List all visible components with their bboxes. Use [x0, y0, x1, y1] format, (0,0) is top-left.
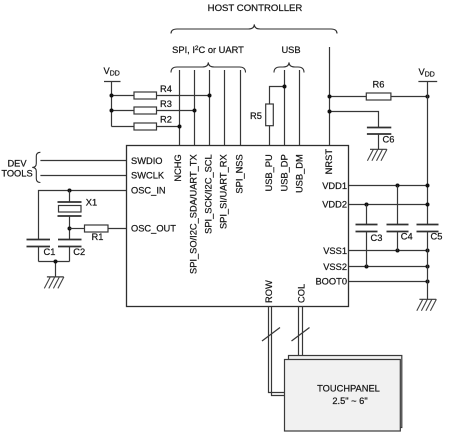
junction R4 / SCL	[208, 94, 212, 98]
wire OSC_IN to C1	[39, 191, 128, 240]
svg-text:TOUCHPANEL: TOUCHPANEL	[317, 383, 380, 393]
wire VDD stem to R2	[112, 126, 135, 128]
pin label USB_DM	[294, 154, 304, 193]
junction VSS2 / C3	[365, 265, 369, 269]
junction R6 / NRST	[328, 95, 332, 99]
svg-text:C1: C1	[44, 247, 56, 257]
brace dev tools	[32, 152, 40, 182]
label HOST CONTROLLER	[208, 3, 303, 14]
capacitor C3	[356, 205, 383, 267]
junction R3 / SDA	[193, 109, 197, 113]
pin label SWCLK	[131, 171, 165, 181]
wire USB_DP to host	[284, 70, 286, 146]
junction VDD1 / C4	[396, 184, 400, 188]
svg-text:NCHG: NCHG	[173, 154, 183, 181]
svg-text:R5: R5	[250, 111, 262, 121]
wire SWCLK	[40, 175, 127, 177]
svg-text:C4: C4	[401, 232, 413, 242]
wire C1 C2 ground bus	[39, 262, 70, 278]
capacitor C5	[417, 225, 443, 300]
wire SPI_SI/UART_RX to host	[224, 70, 226, 146]
wire NRST vertical	[329, 47, 331, 146]
pin label OSC_IN	[131, 185, 166, 195]
label touchpanel	[317, 383, 380, 406]
pin label OSC_OUT	[131, 223, 176, 233]
wire NCHG to host	[179, 70, 181, 146]
svg-text:DEV: DEV	[7, 159, 27, 169]
junction VDD stem R4	[110, 94, 114, 98]
svg-text:SPI_SCK/I2C_SCL: SPI_SCK/I2C_SCL	[203, 154, 213, 234]
svg-text:USB_DP: USB_DP	[279, 154, 289, 191]
supply VDD right	[418, 67, 437, 225]
crystal X1	[58, 191, 98, 240]
touchpanel front panel	[285, 360, 401, 432]
svg-text:ROW: ROW	[264, 280, 274, 303]
pin label VSS1	[323, 246, 347, 256]
bus ROW	[269, 307, 286, 396]
junction VDD2 / VDD rail	[426, 203, 430, 207]
svg-text:SWDIO: SWDIO	[131, 156, 163, 166]
wire BOOT0	[349, 281, 428, 283]
capacitor C1	[27, 240, 56, 262]
svg-text:VSS1: VSS1	[323, 246, 347, 256]
svg-text:R2: R2	[160, 115, 172, 125]
svg-text:USB_DM: USB_DM	[294, 154, 304, 193]
pin label NRST	[324, 149, 334, 175]
svg-text:R4: R4	[160, 84, 172, 94]
junction C6 / NRST	[328, 110, 332, 114]
pin label SPI_SCK/I2C_SCL	[203, 154, 213, 234]
wire SWDIO	[40, 160, 127, 162]
bus slash COL	[292, 328, 310, 342]
brace USB group	[274, 62, 304, 72]
svg-text:C3: C3	[371, 233, 383, 243]
label USB	[281, 45, 300, 55]
junction OSC_OUT / X1 / C2	[68, 227, 72, 231]
bus COL	[299, 307, 303, 361]
wire SPI_NSS to host	[240, 70, 242, 146]
junction VDD1 / VDD rail	[426, 184, 430, 188]
pin label USB_DP	[279, 154, 289, 191]
svg-text:SPI_SO/I2C_SDA/UART_TX: SPI_SO/I2C_SDA/UART_TX	[188, 154, 198, 274]
resistor R3	[112, 99, 195, 114]
junction R6 / VDD rail	[426, 95, 430, 99]
pin label SPI_NSS	[234, 154, 244, 193]
pin label NCHG	[173, 154, 183, 181]
pin label COL	[296, 284, 306, 303]
wire VDD2	[349, 204, 428, 206]
wire SPI_SO/I2C_SDA/UART_TX to host	[194, 70, 196, 146]
svg-text:SPI, I2C or UART: SPI, I2C or UART	[172, 45, 244, 55]
junction R2 / NCHG	[178, 125, 182, 129]
junction ground bus	[54, 260, 58, 264]
pin label VDD1	[322, 181, 347, 191]
wire VSS1	[349, 250, 428, 252]
wire USB_DM to host	[299, 70, 301, 146]
junction VDD stem R3	[110, 109, 114, 113]
svg-text:OSC_OUT: OSC_OUT	[131, 223, 176, 233]
svg-text:VDD1: VDD1	[322, 181, 347, 191]
pin label SPI_SO/I2C_SDA/UART_TX	[188, 154, 198, 274]
svg-text:SPI_SI/UART_RX: SPI_SI/UART_RX	[218, 154, 228, 229]
label SPI, I2C or UART	[172, 45, 244, 55]
touchpanel back panel	[289, 356, 402, 428]
ground C6	[367, 149, 387, 161]
svg-text:C5: C5	[431, 232, 443, 242]
resistor R1	[70, 225, 128, 242]
resistor R5	[250, 87, 285, 147]
pin label SPI_SI/UART_RX	[218, 154, 228, 229]
pin label USB_PU	[264, 154, 274, 191]
svg-text:TOOLS: TOOLS	[1, 169, 32, 179]
svg-text:C6: C6	[383, 135, 395, 145]
wire VDD1	[349, 185, 428, 187]
svg-text:R1: R1	[92, 232, 104, 242]
wire SPI_SCK/I2C_SCL to host	[209, 70, 211, 146]
junction OSC_IN / X1	[68, 189, 72, 193]
svg-text:VSS2: VSS2	[323, 262, 347, 272]
brace host controller	[171, 24, 337, 33]
ground left	[44, 277, 64, 289]
svg-text:BOOT0: BOOT0	[315, 277, 347, 287]
pin label BOOT0	[315, 277, 347, 287]
junction VDD2 / C3	[365, 203, 369, 207]
svg-text:USB_PU: USB_PU	[264, 154, 274, 191]
junction BOOT0 / ground rail	[426, 280, 430, 284]
label DEV TOOLS	[1, 159, 32, 179]
IC U1 touch controller	[127, 146, 349, 307]
svg-text:NRST: NRST	[324, 149, 334, 175]
svg-text:R6: R6	[373, 80, 385, 90]
pin label ROW	[264, 280, 274, 303]
svg-text:R3: R3	[160, 99, 172, 109]
svg-text:X1: X1	[86, 198, 97, 208]
svg-text:OSC_IN: OSC_IN	[131, 185, 166, 195]
junction VSS2 / ground rail	[426, 265, 430, 269]
junction VSS1 / ground rail	[426, 249, 430, 253]
ground right rail	[417, 299, 437, 311]
svg-text:VDD2: VDD2	[322, 199, 347, 209]
svg-text:2.5" ~ 6": 2.5" ~ 6"	[332, 396, 367, 406]
capacitor C6	[330, 112, 395, 150]
pin label VSS2	[323, 262, 347, 272]
supply VDD left	[104, 66, 121, 127]
capacitor C2	[58, 240, 85, 262]
svg-text:SPI_NSS: SPI_NSS	[234, 154, 244, 193]
resistor R6	[330, 80, 428, 100]
svg-text:USB: USB	[281, 45, 300, 55]
junction R5 / USB_DP	[283, 85, 287, 89]
svg-text:C2: C2	[73, 247, 85, 257]
svg-text:SWCLK: SWCLK	[131, 171, 165, 181]
resistor R2	[134, 115, 180, 130]
wire VSS2	[349, 266, 428, 268]
pin label VDD2	[322, 199, 347, 209]
bus slash ROW	[262, 328, 280, 342]
brace SPI group	[171, 62, 246, 72]
junction VSS1 / C4	[396, 249, 400, 253]
svg-text:HOST CONTROLLER: HOST CONTROLLER	[208, 3, 303, 14]
resistor R4	[112, 84, 210, 99]
pin label SWDIO	[131, 156, 163, 166]
capacitor C4	[387, 186, 413, 251]
svg-text:COL: COL	[296, 284, 306, 303]
